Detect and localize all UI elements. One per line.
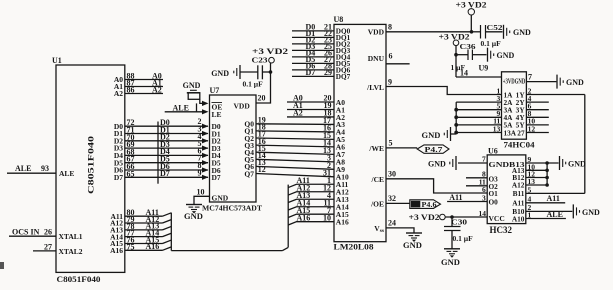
svg-text:C8051F040: C8051F040: [87, 136, 96, 194]
U6 pin 7 GND wire: [458, 155, 487, 164]
U7 pin 15 Q4 wire to U8 A7: [244, 144, 334, 157]
U7 pin 16 Q3 wire to U8 A6: [244, 137, 334, 150]
svg-text:U6: U6: [488, 146, 498, 155]
svg-text:75: 75: [127, 242, 135, 251]
U9 pin 3 2A: [456, 94, 513, 107]
U8 part name LM20L08: [334, 243, 374, 252]
U8 pin 21 DQ0 wire net D0: [292, 23, 351, 36]
svg-text:GND: GND: [441, 257, 460, 267]
svg-text:27: 27: [517, 128, 525, 137]
U8 pin 8 VDD wire to +3 VD2: [368, 23, 472, 37]
data bus line D0-D7: [157, 122, 159, 184]
U9 input tie line: [455, 102, 457, 134]
svg-text:OCS IN: OCS IN: [12, 227, 40, 236]
power +3 VD2 at C23: [252, 47, 288, 63]
ground at C23: [211, 65, 240, 79]
U8 pin 30 /CE wire to U6 O1: [370, 169, 487, 193]
U8 pin name A4: [336, 128, 345, 137]
U8 pin 18 A2 wire net A2: [287, 109, 345, 122]
svg-text:13A: 13A: [504, 128, 517, 137]
U1 pin 70 wire net D2 to U7 pin 4: [114, 132, 221, 146]
svg-text:6: 6: [389, 52, 393, 61]
svg-text:U7: U7: [210, 86, 220, 95]
U6 pin 4 A11 wire net A11: [512, 194, 565, 207]
U6 pin 10 A13: [512, 162, 549, 175]
U9 inside +3VD GND: [503, 77, 526, 85]
capacitor C30 0.1uF: [444, 217, 473, 249]
U7 pin 20 VDD: [234, 63, 271, 111]
svg-text:/CE: /CE: [370, 175, 384, 184]
svg-text:U9: U9: [479, 64, 489, 73]
svg-text:U1: U1: [52, 56, 62, 65]
svg-text:ALE: ALE: [15, 164, 31, 173]
svg-text:GND: GND: [212, 194, 229, 203]
U7 pin 17 Q2 wire to U8 A5: [244, 130, 334, 143]
capacitor C36 1uF: [451, 42, 487, 72]
net label ALE (left): [15, 164, 49, 173]
edge mark: [0, 262, 4, 269]
ground at U8 Vss: [403, 233, 422, 250]
U1 vertical part name C8051F040: [87, 136, 96, 194]
svg-text:LM20L08: LM20L08: [334, 243, 374, 252]
U8 pin 28 DQ6 wire net D6: [292, 62, 351, 75]
U1 pin 78 wire net A13: [110, 222, 171, 235]
svg-text:20: 20: [258, 94, 266, 103]
U1 pin 79 wire net A12: [110, 215, 171, 228]
U1 pin 77 wire net A14: [110, 228, 171, 241]
svg-text:Q7: Q7: [244, 169, 254, 178]
svg-text:A11: A11: [449, 193, 462, 202]
svg-text:GND: GND: [211, 69, 229, 78]
U8 pin 19 A1 wire net A1: [287, 101, 345, 114]
svg-text:+3 VD2: +3 VD2: [439, 33, 470, 42]
junction C36: [454, 53, 458, 57]
svg-text:GND: GND: [582, 208, 600, 217]
svg-text:HC32: HC32: [490, 225, 513, 235]
svg-text:86: 86: [127, 86, 135, 95]
svg-text:13: 13: [493, 124, 501, 133]
svg-text:A2: A2: [293, 109, 303, 118]
U8 pin name A9: [336, 165, 345, 174]
net label OCS IN 26: [12, 227, 52, 236]
svg-text:VCC: VCC: [489, 214, 505, 223]
svg-text:8: 8: [388, 23, 392, 32]
svg-text:A10: A10: [512, 214, 525, 223]
power +3 VD2 (top right): [456, 1, 487, 32]
svg-text:24: 24: [388, 219, 396, 228]
U9 pin 12 27: [517, 124, 548, 137]
U9 pin 9 4A: [456, 109, 513, 122]
U8 pin 5 /WE wire: [368, 139, 417, 153]
net label ALE at U7: [173, 103, 189, 112]
U9 pin 14 +3VD wire: [456, 69, 502, 78]
U9 pin 7 GND wire: [526, 72, 556, 81]
U9 pin 8 4Y: [516, 109, 549, 122]
pin number 27: [44, 243, 52, 252]
junction C30: [450, 215, 454, 219]
U8 pin name A10: [336, 173, 349, 182]
junction C23: [269, 70, 273, 74]
ground at U6 B13 group: [560, 156, 587, 170]
U8 pin 9 /LVL wire to U9 1A: [366, 77, 501, 94]
U9 pin 6 3Y: [516, 102, 549, 115]
U8 pin 24 Vss wire: [374, 219, 414, 234]
svg-text:74HC04: 74HC04: [504, 141, 535, 150]
U8 pin 1 A11 wire from bus: [288, 176, 348, 189]
port P4.7: [417, 145, 449, 154]
svg-text:65: 65: [127, 169, 135, 178]
U1 pin 75 wire net A16: [110, 242, 171, 255]
U6 pin 6 O1: [482, 185, 498, 198]
svg-text:GND: GND: [513, 28, 531, 37]
svg-text:9: 9: [388, 77, 392, 86]
U6 part name HC32: [490, 225, 513, 235]
svg-text:GND: GND: [403, 240, 422, 250]
U6 pin 1 A10 wire net ALE: [512, 210, 566, 223]
U7 part name MC74HC573ADT: [202, 204, 262, 213]
capacitor C52 0.1uF: [472, 23, 503, 48]
U1 pin 68 wire net D4 to U7 pin 6: [114, 146, 221, 160]
latch U7 MC74HC573ADT body: [210, 86, 257, 202]
svg-text:D7: D7: [212, 173, 221, 182]
svg-text:B11: B11: [513, 189, 525, 198]
ground at U6 B10: [573, 204, 600, 218]
U8 pin 25 DQ3 wire net D3: [292, 42, 351, 55]
U1 pin 27 XTAL2 wire: [33, 250, 56, 252]
wire U9 1Y to U6 B11: [584, 95, 586, 194]
U8 pin name A6: [336, 143, 345, 152]
svg-text:XTAL2: XTAL2: [59, 247, 83, 256]
svg-text:A11: A11: [547, 194, 560, 203]
U8 pin 32 /OE wire: [370, 194, 410, 209]
svg-text:32: 32: [388, 194, 396, 203]
ground above U7: [183, 81, 201, 93]
svg-text:18: 18: [324, 109, 332, 118]
svg-text:30: 30: [388, 169, 396, 178]
svg-text:VDD: VDD: [368, 28, 385, 37]
U9 pin 1 1A: [497, 86, 514, 99]
U8 pin 23 DQ2 wire net D2: [292, 36, 351, 49]
U9 pin 11 5A: [456, 117, 513, 130]
svg-text:7: 7: [528, 72, 532, 81]
power +3 VD2 at C30: [409, 213, 446, 222]
svg-text:/WE: /WE: [368, 144, 384, 153]
address bus vertical (right): [287, 185, 289, 248]
U8 pin 11 A14 wire from bus: [288, 198, 349, 211]
U1 pin 67 wire net D5 to U7 pin 7: [114, 154, 221, 168]
U6 pin 5 B11 wire to U9 1Y: [513, 185, 585, 198]
svg-text:5: 5: [389, 139, 393, 148]
ground at U9 pin 7: [557, 75, 584, 89]
svg-text:/OE: /OE: [370, 200, 384, 209]
address bus horizontal run: [171, 250, 282, 252]
svg-text:9: 9: [198, 168, 202, 177]
U1 pin 71 wire net D1 to U7 pin 3: [114, 125, 221, 139]
U8 pin 7 A15 wire from bus: [288, 206, 349, 219]
U1 bottom label C8051F040: [57, 274, 101, 284]
U8 pin name A3: [336, 120, 345, 129]
memory U8 LM20L08 body: [334, 15, 387, 242]
U6 pin 11 O2 stub: [466, 177, 498, 191]
power +3 VD2 at C36: [439, 33, 470, 78]
svg-text:O0: O0: [489, 198, 499, 207]
ground at C36: [488, 48, 515, 62]
U9 pin 5 3A: [456, 102, 513, 115]
U6 tie line B13-A12: [546, 163, 548, 185]
U7 pin 12 Q7 wire to U8 A10: [244, 165, 334, 178]
U8 pin 12 A12 wire from bus: [288, 183, 349, 196]
svg-text:GND: GND: [428, 160, 446, 169]
svg-text:A2: A2: [152, 85, 162, 94]
U6 pin 14 VCC wire: [445, 209, 505, 223]
op-amp U1 C8051F040 MCU body: [52, 56, 125, 272]
svg-text:12: 12: [258, 165, 266, 174]
U7 pin 14 Q5 wire to U8 A8: [244, 151, 334, 164]
U7 pin name LE: [212, 110, 222, 119]
svg-text:A16: A16: [336, 217, 349, 226]
U1 pin 69 wire net D3 to U7 pin 5: [114, 139, 221, 153]
U9 pin 2 1Y: [516, 86, 585, 99]
ground under U7: [184, 205, 203, 222]
U1 pin 88 wire net A0: [114, 71, 163, 84]
junction U9 input row 5: [454, 131, 458, 135]
svg-text:C8051F040: C8051F040: [57, 274, 101, 284]
svg-text:GND: GND: [183, 81, 201, 90]
junction U9 input row 3: [454, 115, 458, 119]
svg-text:D7: D7: [160, 169, 170, 178]
svg-text:ALE: ALE: [173, 103, 189, 112]
capacitor C23 0.1uF: [240, 56, 271, 89]
svg-text:XTAL1: XTAL1: [59, 232, 83, 241]
ground at U6 pin 7: [428, 156, 456, 170]
U8 pin 29 DQ7 wire net D7: [292, 68, 351, 81]
junction B13: [545, 161, 549, 165]
U8 pin 6 DNU stub: [368, 52, 410, 64]
svg-text:LE: LE: [212, 110, 222, 119]
U7 pin 18 Q1 wire to U8 A4: [244, 123, 334, 136]
U9 pin 10 5Y: [516, 117, 549, 130]
svg-text:0.1 µF: 0.1 µF: [453, 234, 474, 243]
svg-text:0.1 µF: 0.1 µF: [243, 80, 264, 89]
svg-text:P4.6: P4.6: [422, 200, 437, 209]
U6 pin 9 B13 wire: [526, 155, 559, 164]
U9 pin 4 2Y: [516, 94, 549, 107]
U8 pin 4 A13 wire from bus: [288, 191, 349, 204]
svg-text:1: 1: [528, 210, 532, 219]
junction U9 input row 4: [454, 123, 458, 127]
U6 pin 2 B10 wire: [512, 203, 572, 216]
U6 pin 12 B12: [512, 170, 549, 183]
U1 pin 76 wire net A15: [110, 235, 171, 248]
svg-text:+3 VD2: +3 VD2: [409, 213, 440, 222]
ground at C30: [441, 249, 460, 267]
svg-text:ALE: ALE: [547, 210, 563, 219]
svg-text:GND: GND: [422, 130, 441, 140]
svg-text:C30: C30: [451, 218, 467, 227]
ground at U9 inputs: [422, 127, 457, 141]
U1 pin 66 wire net D6 to U7 pin 8: [114, 161, 221, 175]
U7 pin name OE with overbar: [212, 103, 223, 112]
U8 pin 10 A16 wire from bus: [288, 213, 349, 226]
wire ALE to U7 LE: [165, 109, 209, 114]
svg-text:A16: A16: [110, 246, 123, 255]
U8 pin 26 DQ4 wire net D4: [292, 49, 351, 62]
U8 pin name A7: [336, 150, 345, 159]
U1 pin 87 wire net A1: [114, 78, 163, 91]
U8 pin 27 DQ5 wire net D5: [292, 55, 351, 68]
svg-text:VDD: VDD: [234, 102, 251, 111]
wire junction OE to LE: [196, 103, 198, 111]
svg-text:26: 26: [44, 228, 52, 237]
U7 pin 10 GND: [194, 188, 229, 205]
svg-text:7: 7: [482, 155, 486, 164]
svg-text:ALE: ALE: [59, 169, 74, 178]
svg-text:10: 10: [323, 213, 331, 222]
svg-text:93: 93: [41, 164, 49, 173]
svg-text:5: 5: [528, 185, 532, 194]
svg-text:D7: D7: [114, 173, 123, 182]
address bus vertical (left): [170, 213, 172, 251]
svg-text:DQ7: DQ7: [336, 73, 351, 81]
svg-text:DNU: DNU: [368, 54, 385, 63]
U1 pin name ALE: [59, 169, 74, 178]
svg-text:3: 3: [482, 193, 486, 202]
svg-text:29: 29: [324, 68, 332, 77]
junction U9 input row 2: [454, 108, 458, 112]
svg-text:GND: GND: [184, 211, 203, 221]
U1 pin 86 wire net A2: [114, 85, 163, 98]
svg-text:14: 14: [460, 69, 468, 78]
U9 part name 74HC04: [504, 141, 535, 150]
ground at C52: [504, 25, 532, 39]
svg-text:MC74HC573ADT: MC74HC573ADT: [202, 204, 262, 213]
U1 pin 65 wire net D7 to U7 pin 9: [114, 168, 221, 182]
U6 inside GND B13: [489, 160, 525, 169]
U8 pin name A5: [336, 135, 345, 144]
U1 pin name XTAL2: [59, 247, 83, 256]
svg-text:/LVL: /LVL: [366, 83, 384, 92]
U8 pin name A8: [336, 158, 345, 167]
wire GND to U7 OE: [188, 93, 208, 106]
svg-text:A16: A16: [297, 213, 311, 222]
svg-text:GND: GND: [566, 78, 584, 87]
gate U6 HC32 body: [487, 146, 526, 223]
svg-text:D7: D7: [306, 68, 316, 77]
svg-text:P4.7: P4.7: [425, 145, 443, 154]
U7 pin 13 Q6 wire to U8 A9: [244, 158, 334, 171]
junction VDD C52: [470, 30, 474, 34]
svg-text:0.1 µF: 0.1 µF: [481, 39, 502, 48]
svg-text:U8: U8: [334, 15, 344, 24]
U8 pin 22 DQ1 wire net D1: [292, 29, 351, 42]
U8 pin 20 A0 wire net A0: [287, 94, 345, 107]
svg-text:C52: C52: [487, 23, 503, 32]
port P4.6: [410, 200, 441, 209]
svg-text:A16: A16: [146, 242, 160, 251]
svg-text:10: 10: [197, 188, 205, 197]
U7 pin 19 Q0 wire to U8 A3: [244, 116, 334, 129]
U1 pin 93 ALE wire: [7, 172, 56, 174]
U1 pin 26 XTAL1 wire: [9, 235, 56, 237]
inverter U9 74HC04 body: [479, 64, 527, 140]
U6 pin 8 O3 stub: [466, 169, 498, 183]
U9 pin 13 13A: [456, 124, 517, 137]
U1 pin 80 wire net A11: [110, 208, 171, 221]
svg-text:C36: C36: [460, 42, 476, 51]
svg-text:GND: GND: [568, 160, 586, 169]
svg-text:14: 14: [479, 209, 487, 218]
svg-text:GND: GND: [497, 51, 515, 60]
svg-text:+3VDGND: +3VDGND: [503, 77, 526, 85]
U6 pin 3 O0 wire net A11: [447, 193, 498, 207]
U6 pin 13 A12: [512, 177, 549, 190]
svg-text:A2: A2: [336, 113, 345, 122]
U1 pin name XTAL1: [59, 232, 83, 241]
address bus corner diagonal: [283, 247, 289, 250]
svg-text:A2: A2: [114, 89, 123, 98]
U1 pin 72 wire net D0 to U7 pin 2: [114, 117, 221, 131]
svg-text:C23: C23: [252, 56, 268, 65]
svg-text:27: 27: [44, 243, 52, 252]
